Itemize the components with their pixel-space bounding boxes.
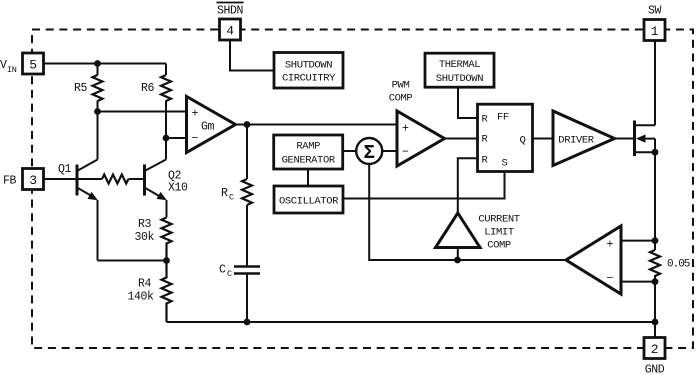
node: R5 bottom / Gm + input <box>94 108 101 115</box>
block U RAMP GENERATOR <box>274 135 343 169</box>
svg-text:CURRENT: CURRENT <box>478 214 519 226</box>
svg-text:RAMP: RAMP <box>296 141 320 153</box>
block U SHUTDOWN CIRCUITRY <box>274 53 343 89</box>
svg-text:+: + <box>192 108 199 121</box>
svg-text:1: 1 <box>651 24 659 39</box>
wire: summer bottom to current comp output line <box>369 164 457 260</box>
resistor between Q1 and Q2 bases <box>102 175 128 184</box>
svg-text:R6: R6 <box>141 82 155 95</box>
svg-text:FB: FB <box>3 175 17 188</box>
wire: sense comparator + input tap <box>621 240 655 242</box>
wire: PWM comp output to FF R input <box>445 138 478 140</box>
wire: VIN rail from pin 5 to R6 top <box>44 63 167 65</box>
svg-text:IN: IN <box>7 65 17 75</box>
svg-text:Gm: Gm <box>201 121 215 134</box>
node: R6 bottom / Gm - input <box>163 135 170 142</box>
resistor R4 140k <box>162 261 172 323</box>
wire: current limit comp base to output line <box>457 248 459 261</box>
wire: Gm output to PWM comp + input <box>236 124 398 126</box>
svg-text:Q1: Q1 <box>58 163 72 176</box>
svg-text:R4: R4 <box>138 278 152 291</box>
svg-text:−: − <box>192 133 199 146</box>
wire: thermal shutdown down to FF R input <box>458 88 478 119</box>
wire: ramp generator to oscillator link <box>307 169 309 186</box>
svg-text:S: S <box>502 158 508 170</box>
wire: Gm - input from R6 bottom <box>166 137 187 139</box>
svg-text:COMP: COMP <box>389 93 413 105</box>
wire: FF Q output to driver <box>533 138 554 140</box>
summing junction <box>356 138 382 164</box>
svg-text:2: 2 <box>651 342 659 357</box>
op-amp Gm <box>187 97 236 153</box>
wire: ramp generator to summer <box>343 150 357 152</box>
block U THERMAL SHUTDOWN <box>425 53 494 87</box>
svg-text:R5: R5 <box>74 82 88 95</box>
wire: compensation branch vertical <box>246 125 248 323</box>
svg-text:V: V <box>0 59 7 72</box>
pin 2 GND <box>644 338 665 359</box>
resistor 0.05 sense <box>650 250 660 276</box>
svg-text:LIMIT: LIMIT <box>484 227 514 239</box>
transistor Q2 <box>145 160 167 218</box>
svg-text:R: R <box>221 187 228 200</box>
svg-text:SW: SW <box>648 5 662 18</box>
node: current limit comp output junction <box>454 257 461 264</box>
flip-flop U FF <box>478 104 533 171</box>
svg-text:C: C <box>219 264 226 277</box>
node: MOSFET source junction <box>652 149 659 156</box>
pin 4 SHDN <box>220 19 241 40</box>
svg-text:PWM: PWM <box>392 80 410 92</box>
svg-text:5: 5 <box>29 57 37 72</box>
resistor R5 <box>93 75 103 101</box>
wire: sense comparator - input tap <box>621 281 655 283</box>
svg-text:THERMAL: THERMAL <box>439 59 480 71</box>
node: R3/R4 junction <box>163 257 170 264</box>
wire: Q1 emitter to R3/R4 junction <box>98 260 167 262</box>
node: bottom rail / GND junction <box>652 319 659 326</box>
wire: R6 branch vertical down to Q2 collector <box>165 64 167 160</box>
svg-text:SHUTDOWN: SHUTDOWN <box>436 73 483 85</box>
wire: base resistor to Q2 base <box>129 178 145 180</box>
amplifier DRIVER <box>553 111 615 166</box>
svg-text:GENERATOR: GENERATOR <box>282 155 336 167</box>
svg-text:30k: 30k <box>135 231 155 244</box>
wire: bottom rail from R4 to GND pin column <box>167 321 655 323</box>
svg-text:Q: Q <box>520 135 526 147</box>
block U OSCILLATOR <box>274 186 343 213</box>
wire: R5 branch vertical (top stub, bottom stub to Q1 collector) <box>97 64 99 160</box>
svg-text:C: C <box>227 269 232 279</box>
svg-text:0.05: 0.05 <box>667 259 690 271</box>
node: sense resistor top junction <box>652 237 659 244</box>
comparator current sense amp <box>566 226 621 294</box>
overline for SHDN <box>217 2 244 4</box>
svg-text:C: C <box>229 193 234 203</box>
pin 1 SW <box>644 20 665 41</box>
pin 3 FB <box>23 169 44 190</box>
svg-text:GND: GND <box>645 364 665 375</box>
wire: summer to PWM comp - input <box>382 150 397 152</box>
svg-text:−: − <box>607 273 614 286</box>
op-amp PWM comparator <box>397 111 445 166</box>
wire: FB pin to Q1 base and base resistor run <box>44 178 103 180</box>
svg-text:4: 4 <box>226 23 234 38</box>
svg-text:R3: R3 <box>138 218 152 231</box>
comparator current limit comp <box>436 213 481 248</box>
svg-text:SHDN: SHDN <box>217 5 243 18</box>
svg-text:3: 3 <box>29 173 37 188</box>
svg-text:OSCILLATOR: OSCILLATOR <box>279 195 339 207</box>
resistor R6 <box>161 75 171 101</box>
resistor R3 30k <box>162 218 172 261</box>
node: R5 top junction <box>94 60 101 67</box>
svg-text:Σ: Σ <box>363 142 374 164</box>
resistor RC <box>242 179 252 205</box>
svg-text:−: − <box>402 146 409 159</box>
node: CC bottom rail junction <box>244 319 251 326</box>
transistor power MOSFET <box>635 121 656 157</box>
svg-text:COMP: COMP <box>487 240 511 252</box>
wire: current limit comp output to FF R input <box>458 158 478 214</box>
svg-text:+: + <box>607 239 614 252</box>
capacitor CC <box>234 267 260 274</box>
wire: MOSFET source down through sense resistor to GND <box>654 152 656 337</box>
svg-text:FF: FF <box>497 112 509 124</box>
wire: oscillator output to FF S input <box>343 172 505 199</box>
wire: Gm + input from R5 bottom <box>98 111 187 113</box>
wire: SW pin down to MOSFET drain <box>654 41 656 126</box>
node: Gm output / compensation tap <box>244 121 251 128</box>
transistor Q1 <box>77 160 98 261</box>
wire: current sense comparator output line <box>458 259 567 261</box>
svg-text:SHUTDOWN: SHUTDOWN <box>285 59 332 71</box>
svg-text:DRIVER: DRIVER <box>558 134 595 146</box>
svg-text:+: + <box>402 123 409 136</box>
svg-text:X10: X10 <box>168 182 188 195</box>
wire: SHDN pin 4 down to shutdown circuitry <box>230 40 274 71</box>
svg-text:CIRCUITRY: CIRCUITRY <box>282 72 336 84</box>
node: sense resistor bottom junction <box>652 278 659 285</box>
svg-text:140k: 140k <box>128 291 155 304</box>
pin 5 VIN <box>23 53 44 74</box>
wire: driver output to MOSFET gate <box>615 138 635 140</box>
